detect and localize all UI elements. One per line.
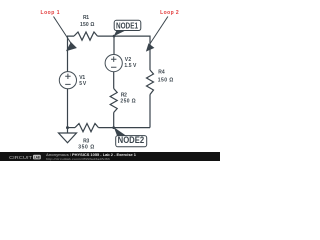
svg-text:150 Ω: 150 Ω bbox=[158, 78, 174, 84]
wire mid rail NODE1 to V2 bbox=[113, 36, 115, 54]
node NODE2 callout bbox=[114, 127, 147, 147]
svg-text:Loop 1: Loop 1 bbox=[41, 10, 60, 16]
footer CircuitLab logo bbox=[9, 155, 41, 161]
wire top rail right segment bbox=[98, 36, 151, 70]
resistor R4 bbox=[147, 70, 154, 95]
svg-text:1.5 V: 1.5 V bbox=[124, 63, 137, 69]
voltage source V2 bbox=[105, 55, 122, 72]
wire top rail left segment bbox=[68, 36, 75, 72]
node junction V1/R3/ground bbox=[66, 126, 69, 129]
svg-text:R4: R4 bbox=[158, 69, 165, 75]
node junction at NODE2 bbox=[112, 126, 115, 129]
svg-text:350 Ω: 350 Ω bbox=[78, 145, 94, 151]
wire V1 to bottom junction bbox=[67, 89, 69, 128]
node NODE1 callout bbox=[114, 20, 141, 36]
voltage source V1 bbox=[59, 72, 76, 89]
svg-text:NODE2: NODE2 bbox=[118, 135, 145, 145]
wire bottom rail left lead bbox=[68, 127, 76, 129]
wire R2 to NODE2 bbox=[113, 113, 115, 128]
svg-text:R3: R3 bbox=[83, 138, 89, 144]
svg-text:Loop 2: Loop 2 bbox=[160, 10, 179, 16]
wire V2 to R2 bbox=[113, 72, 115, 89]
svg-text:250 Ω: 250 Ω bbox=[120, 99, 135, 105]
svg-text:5 V: 5 V bbox=[79, 81, 87, 87]
svg-text:150 Ω: 150 Ω bbox=[80, 22, 94, 28]
resistor R2 bbox=[110, 89, 117, 113]
svg-text:NODE1: NODE1 bbox=[116, 20, 138, 30]
wire right rail lower bbox=[149, 95, 151, 128]
svg-text:V1: V1 bbox=[79, 75, 85, 81]
node junction at NODE1 bbox=[113, 35, 116, 38]
annotation Loop 2 arrow bbox=[146, 17, 168, 52]
resistor R1 bbox=[74, 32, 98, 40]
svg-text:LAB: LAB bbox=[34, 155, 40, 159]
svg-text:R1: R1 bbox=[83, 15, 89, 21]
resistor R3 bbox=[75, 124, 99, 132]
annotation Loop 1 arrow bbox=[54, 17, 77, 52]
footer bar bbox=[0, 152, 220, 161]
wire bottom rail right segment bbox=[99, 127, 151, 129]
ground bbox=[59, 128, 77, 143]
svg-text:CIRCUIT: CIRCUIT bbox=[9, 155, 32, 161]
svg-text:http://circuitlab.com/c/899fad: http://circuitlab.com/c/899fad3a28d6h bbox=[46, 157, 110, 161]
